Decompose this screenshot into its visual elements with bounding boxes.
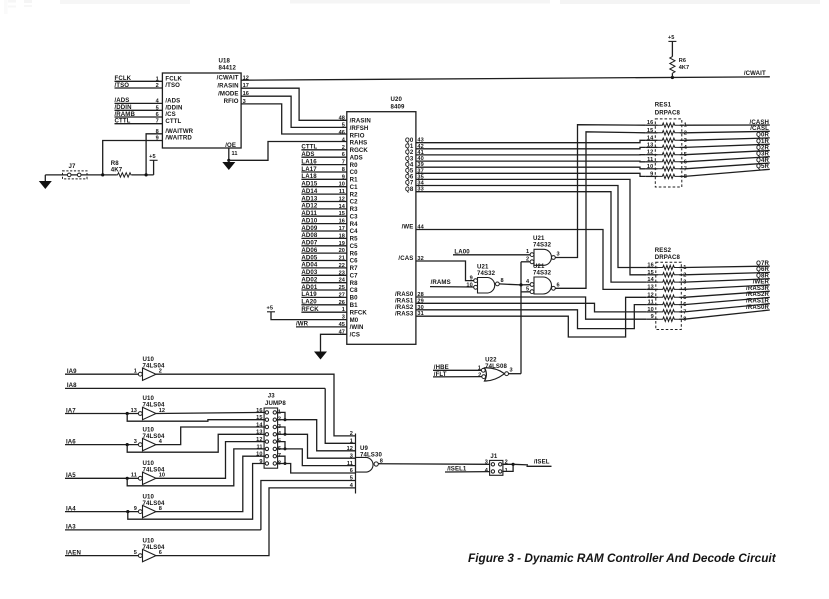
wire U21 vertical (pin2/pin4/pin5/U22) [521, 262, 530, 374]
svg-text:C8: C8 [350, 287, 359, 294]
wire net IA5 to U10 input [65, 472, 138, 479]
wire net Q3R [685, 151, 770, 162]
svg-text:J1: J1 [490, 453, 497, 460]
svg-text:LA20: LA20 [301, 299, 317, 306]
wire net AD02 to U20 [301, 277, 346, 284]
wire net AD10 to U20 [301, 217, 346, 224]
wire Q8 to RES2 pin14 [416, 192, 646, 282]
junction dot /OE node [227, 159, 230, 162]
IC U18 84412 wait-state controller [156, 57, 249, 157]
wire Q4 to RES1 [416, 167, 646, 169]
wire net LA17 to U20 [301, 166, 346, 173]
svg-text:RFIO: RFIO [224, 98, 239, 105]
junction dot at pin8 drop [145, 173, 148, 176]
svg-text:CTTL: CTTL [115, 118, 131, 125]
svg-text:13: 13 [647, 284, 653, 290]
scan streaks (decorative) [4, 0, 820, 14]
wire /IA6 to J3 pin14 [156, 427, 265, 445]
svg-text:/TSO: /TSO [115, 82, 130, 89]
connector J7 [63, 163, 88, 179]
resistor pack RES2 DRPAC8 [646, 247, 687, 329]
wire net /WER [684, 279, 770, 290]
wire net AD03 to U20 [301, 269, 346, 276]
svg-text:/RAS3: /RAS3 [395, 310, 414, 317]
svg-text:B0: B0 [350, 295, 359, 302]
svg-text:11: 11 [347, 461, 353, 467]
svg-text:15: 15 [647, 128, 653, 134]
svg-text:AD07: AD07 [301, 240, 317, 247]
wire Q5 to RES1 [416, 173, 646, 176]
wire net RFCK to U20 [301, 306, 346, 313]
wire /CAS to U21b pin9 [416, 261, 474, 281]
svg-text:5: 5 [342, 123, 345, 129]
svg-text:RFIO: RFIO [350, 132, 365, 139]
svg-text:C4: C4 [350, 228, 359, 235]
wire net Q7R [684, 260, 770, 268]
or-gate U21 74S32 (a) [526, 235, 560, 265]
svg-text:LA00: LA00 [454, 248, 470, 255]
IC U20 8409 DRAM controller [339, 96, 425, 344]
ground (U18 /OE) [222, 160, 235, 170]
svg-text:ADS: ADS [350, 154, 363, 161]
wire net /ISEL1 to J1 pin4 [445, 466, 490, 473]
wire net /FLT to U22 pin2 [433, 371, 482, 378]
svg-text:R6: R6 [350, 250, 359, 257]
svg-text:RFCK: RFCK [301, 306, 319, 313]
svg-text:LA17: LA17 [301, 166, 317, 173]
wire /RAS3 to RES2 pin12 [416, 297, 646, 337]
svg-text:U18: U18 [219, 57, 231, 64]
svg-text:C0: C0 [350, 169, 359, 176]
svg-text:AD03: AD03 [301, 269, 317, 276]
or-gate U21 74S32 (c) [526, 263, 560, 294]
wire RFIO U18 to U20 [241, 104, 347, 134]
svg-text:IA7: IA7 [66, 407, 76, 414]
wire net LA18 to U20 [301, 173, 346, 180]
svg-text:14: 14 [647, 277, 654, 283]
svg-text:14: 14 [647, 135, 654, 141]
svg-text:R0: R0 [350, 162, 359, 169]
wire net Q8R [684, 273, 770, 283]
svg-text:9: 9 [651, 314, 654, 320]
wire net /CASL [685, 125, 770, 133]
svg-text:J7: J7 [69, 163, 76, 170]
connector J1 [485, 453, 508, 475]
wire /RASIN U18 to U20 [241, 88, 347, 120]
wire J3 pair 3/4 to U9 [277, 427, 356, 458]
wire net AD09 to U20 [301, 225, 346, 232]
wire net AD15 to U20 [301, 181, 346, 188]
wire net /RAMS to U21b pin10 [430, 279, 474, 287]
wire /MODE U18 to U20 /RFSH [241, 96, 347, 127]
svg-text:IA8: IA8 [67, 382, 77, 389]
junction dot at pin9 drop [101, 173, 104, 176]
wire net CTTL to U18 [115, 118, 163, 125]
svg-text:6: 6 [557, 282, 560, 288]
wire /IA4 to J3 pin10 [156, 456, 265, 511]
wire /CASL U21c out to RES1 pin15 [555, 132, 646, 288]
svg-text:ADS: ADS [301, 151, 314, 158]
svg-text:IA5: IA5 [66, 472, 76, 479]
wire net AD07 to U20 [301, 240, 346, 247]
wire net ADS to U20 [301, 151, 346, 158]
wire net /HBE to U22 pin1 [433, 364, 481, 371]
svg-text:12: 12 [647, 292, 653, 298]
resistor pack RES1 DRPAC8 [646, 101, 688, 187]
svg-text:11: 11 [648, 300, 654, 306]
svg-text:74S32: 74S32 [533, 242, 552, 249]
svg-text:AD01: AD01 [301, 284, 317, 291]
wire /IA5 to J3 pin12 [156, 442, 265, 479]
svg-text:3: 3 [350, 453, 353, 459]
wire U18 /OE pin 11 [228, 148, 230, 160]
svg-text:RGCK: RGCK [350, 147, 369, 154]
svg-text:R2: R2 [350, 191, 359, 198]
wire net IA9 to U10 input [65, 368, 138, 375]
wire net CTTL to U20 [301, 144, 346, 151]
svg-text:2: 2 [478, 372, 481, 378]
svg-text:LA18: LA18 [301, 173, 317, 180]
wire IA6 to J3 pin13 [127, 434, 265, 452]
power +5 (U20 M0) [267, 306, 347, 320]
svg-text:Figure 3 - Dynamic RAM Control: Figure 3 - Dynamic RAM Controller And De… [468, 551, 777, 565]
wire net /TSO to U18 [115, 82, 163, 89]
wire J3 pair 7/8 to U9 [277, 456, 356, 473]
svg-text:74S32: 74S32 [477, 270, 496, 277]
wire Q2 to RES1 [416, 154, 646, 156]
wire /WE to RES2 pin13 [416, 230, 646, 290]
wire /OE to U20 RAHS pin 4 [229, 142, 347, 161]
svg-text:AD02: AD02 [301, 277, 317, 284]
inverter U10 74LS04 (IA6) [134, 426, 165, 451]
power +5 (R6 pullup) [668, 35, 677, 56]
wire net IAEN to U10 input [65, 549, 138, 556]
svg-text:/OE: /OE [225, 142, 236, 149]
wire net AD11 to U20 [301, 210, 346, 217]
junction dot J1 out [511, 463, 514, 466]
svg-text:/FLT: /FLT [434, 371, 447, 378]
svg-text:+5: +5 [149, 154, 156, 160]
wire net LA20 to U20 [301, 299, 346, 306]
svg-text:/CAS: /CAS [398, 255, 413, 262]
wire net AD08 to U20 [301, 232, 346, 239]
svg-text:CTTL: CTTL [301, 144, 317, 151]
svg-text:R1: R1 [350, 177, 359, 184]
svg-text:IA6: IA6 [66, 438, 76, 445]
svg-text:IAEN: IAEN [66, 549, 81, 556]
svg-text:46: 46 [339, 130, 345, 136]
svg-text:R4: R4 [350, 221, 359, 228]
svg-text:/RFSH: /RFSH [350, 125, 369, 132]
svg-text:9: 9 [650, 171, 653, 177]
svg-text:4K7: 4K7 [111, 166, 123, 173]
svg-text:/RAMS: /RAMS [431, 279, 451, 286]
svg-text:AD04: AD04 [301, 262, 317, 269]
svg-text:+5: +5 [267, 306, 274, 312]
wire net AD04 to U20 [301, 262, 346, 269]
wire U20 /CS to ground [321, 334, 347, 351]
wire /RAS2 to RES2 pin11 [416, 305, 646, 329]
svg-text:/WE: /WE [402, 224, 414, 231]
wire net /RAMB to U18 [115, 111, 163, 118]
wire net AD12 to U20 [301, 203, 346, 210]
wire net FCLK to U18 [115, 75, 163, 82]
wire net /RAS1R [684, 298, 770, 312]
wire net LA00 to U21a pin1 [453, 248, 530, 255]
svg-text:3: 3 [510, 368, 513, 374]
wire /IA9 to U9 pin2 [156, 374, 356, 436]
svg-text:C5: C5 [350, 243, 359, 250]
wire /CWAIT net [241, 70, 770, 80]
svg-text:/ISEL: /ISEL [534, 459, 550, 466]
svg-text:RAHS: RAHS [350, 140, 368, 147]
ground (left of J7) [39, 175, 52, 189]
svg-text:R8: R8 [350, 280, 359, 287]
svg-text:R7: R7 [350, 265, 359, 272]
svg-text:U20: U20 [391, 96, 403, 103]
svg-text:13: 13 [647, 142, 653, 148]
wire net LA19 to U20 [301, 291, 346, 298]
svg-text:B1: B1 [350, 302, 359, 309]
inverter U10 74LS04 (IA4) [134, 493, 165, 518]
svg-text:AD13: AD13 [301, 195, 317, 202]
svg-text:3: 3 [557, 252, 560, 258]
wire U18 pin9 /WAITRD [103, 141, 163, 175]
svg-text:/WR: /WR [296, 321, 309, 328]
svg-text:M0: M0 [350, 317, 359, 324]
wire net /WR to U20 [296, 321, 347, 328]
ground (U20 /CS) [314, 352, 327, 360]
svg-text:R5: R5 [350, 236, 359, 243]
wire node WAIT joint [45, 174, 153, 176]
wire net Q1R [685, 138, 770, 147]
inverter U10 74LS04 (IAEN) [134, 537, 165, 562]
nand-gate U9 74LS30 [347, 431, 383, 493]
svg-text:IA9: IA9 [67, 368, 77, 375]
svg-text:RES1: RES1 [655, 101, 672, 108]
svg-text:11: 11 [232, 151, 238, 157]
svg-text:12: 12 [647, 150, 653, 156]
wire net Q6R [684, 266, 770, 275]
svg-text:8: 8 [501, 278, 504, 284]
svg-text:/RASIN: /RASIN [350, 118, 371, 125]
power +5 (near R8) [149, 154, 158, 175]
wire Q0 to RES1 [416, 140, 646, 142]
connector J3 JUMP8 [256, 393, 286, 469]
svg-text:R3: R3 [350, 206, 359, 213]
resistor R8 4K7 [111, 160, 132, 177]
wire net IA3 to U9 pin5 [65, 481, 356, 531]
inverter U10 74LS04 (IA9) [134, 356, 165, 381]
svg-text:AD06: AD06 [301, 247, 317, 254]
wire Q7 to RES2 pin16 [416, 186, 646, 268]
figure caption [468, 551, 777, 565]
svg-text:15: 15 [647, 270, 653, 276]
wire IA7 to J3 pin15 [127, 414, 265, 422]
svg-text:AD11: AD11 [301, 210, 317, 217]
svg-text:Q5R: Q5R [756, 163, 769, 170]
svg-text:10: 10 [647, 307, 653, 313]
wire /IA7 to J3 pin16 [156, 412, 265, 413]
wire net IA8 to U9 pin1 [65, 382, 356, 443]
svg-text:LA16: LA16 [301, 158, 317, 165]
wire net Q0R [685, 132, 770, 141]
svg-text:/RAS0R: /RAS0R [746, 304, 769, 311]
junction dot IA6 branch [126, 443, 129, 446]
wire net Q2R [685, 144, 770, 154]
wire net LA16 to U20 [301, 158, 346, 165]
svg-text:/ISEL1: /ISEL1 [447, 466, 467, 473]
wire Q3 to RES1 [416, 160, 646, 163]
svg-text:12: 12 [347, 446, 353, 452]
wire net /DDIN to U18 [115, 104, 163, 111]
junction dot IA4 branch [126, 510, 129, 513]
wire /RAS0 to RES2 pin9 [416, 297, 646, 319]
or-gate U21 74S32 (b) [466, 263, 503, 293]
wire net /ADS to U18 [115, 97, 163, 104]
inverter U10 74LS04 (IA5) [131, 460, 165, 485]
wire net Q5R [685, 163, 770, 176]
wire net IA7 to U10 input [65, 407, 138, 414]
wire net AD05 to U20 [301, 254, 346, 261]
wire net AD14 to U20 [301, 188, 346, 195]
wire IA4 to J3 pin9 [128, 464, 265, 520]
svg-text:DRPAC8: DRPAC8 [655, 254, 681, 261]
wire net /RAS3R [684, 285, 770, 297]
svg-text:C7: C7 [350, 273, 359, 280]
wire U18 pin8 /WAITWR [146, 134, 162, 175]
wire net /ISEL from J1 [513, 459, 551, 467]
svg-text:J3: J3 [268, 393, 275, 400]
resistor R6 4K7 [670, 57, 689, 78]
wire J3 pair 1/2 to U9 [277, 412, 356, 450]
svg-text:48: 48 [339, 115, 345, 121]
and-gate U22 74LS08 [478, 356, 513, 381]
wire net IA4 to U10 input [65, 505, 138, 512]
wire /RAS1 to RES2 pin10 [416, 303, 646, 312]
svg-text:/TSO: /TSO [165, 82, 180, 89]
junction dot IA5 branch [126, 477, 129, 480]
junction dot R6//CWAIT [671, 76, 674, 79]
wire net /RAS2R [684, 291, 770, 304]
svg-text:IA4: IA4 [66, 505, 76, 512]
svg-text:16: 16 [647, 263, 653, 269]
svg-text:DRPAC8: DRPAC8 [655, 110, 681, 117]
svg-text:LA19: LA19 [301, 291, 317, 298]
svg-text:R6: R6 [679, 58, 686, 64]
svg-text:8409: 8409 [391, 103, 405, 110]
wire net AD13 to U20 [301, 195, 346, 202]
svg-text:10: 10 [647, 164, 653, 170]
svg-text:AD05: AD05 [301, 254, 317, 261]
svg-text:/CS: /CS [350, 332, 360, 339]
svg-text:C1: C1 [350, 184, 359, 191]
svg-text:11: 11 [647, 157, 653, 163]
wire /CASH U21a out to RES1 pin16 [555, 125, 646, 258]
svg-text:AD15: AD15 [301, 181, 317, 188]
junction dot IA7 branch [126, 412, 129, 415]
wire J3 pair 5/6 to U9 [277, 442, 356, 466]
svg-text:/RASIN: /RASIN [217, 82, 238, 89]
svg-text:/CWAIT: /CWAIT [217, 75, 239, 82]
wire net AD01 to U20 [301, 284, 346, 291]
svg-text:Q8: Q8 [405, 186, 414, 193]
svg-text:RFCK: RFCK [350, 309, 368, 316]
svg-text:+5: +5 [668, 35, 675, 41]
wire U9 out to J1 pin3 [378, 463, 489, 466]
svg-text:4K7: 4K7 [679, 65, 690, 71]
svg-text:AD12: AD12 [301, 203, 317, 210]
inverter U10 74LS04 (IA7) [131, 395, 166, 420]
svg-text:IA3: IA3 [66, 524, 76, 531]
svg-text:84412: 84412 [219, 65, 237, 72]
wire net AD06 to U20 [301, 247, 346, 254]
wire Q6 to RES2 pin15 [416, 179, 646, 274]
wire U21b out to U21 junction [499, 284, 521, 285]
wire Q1 to RES1 [416, 147, 646, 148]
svg-text:16: 16 [647, 120, 653, 126]
svg-text:AD10: AD10 [301, 217, 317, 224]
svg-text:/MODE: /MODE [218, 90, 238, 97]
svg-text:1: 1 [526, 249, 529, 255]
wire net /RAS0R [684, 304, 770, 319]
svg-text:C2: C2 [350, 199, 359, 206]
svg-text:C6: C6 [350, 258, 359, 265]
svg-text:6: 6 [350, 468, 353, 474]
svg-text:JUMP8: JUMP8 [265, 400, 286, 407]
svg-text:AD14: AD14 [301, 188, 317, 195]
svg-text:/WAITRD: /WAITRD [165, 135, 192, 142]
svg-text:C3: C3 [350, 213, 359, 220]
junction dot U21 net [519, 283, 522, 286]
svg-text:/WIN: /WIN [350, 324, 364, 331]
svg-text:10: 10 [466, 283, 472, 289]
wire net IA6 to U10 input [65, 438, 138, 445]
svg-text:/CWAIT: /CWAIT [744, 70, 766, 77]
svg-text:AD08: AD08 [301, 232, 317, 239]
svg-text:74S32: 74S32 [533, 270, 552, 277]
svg-text:AD09: AD09 [301, 225, 317, 232]
wire J1 pin2 loop to pin1 [503, 464, 513, 471]
wire /IAEN to U9 pin4 [156, 488, 356, 556]
wire net /CASH [685, 119, 770, 126]
wire U22 out up to U21c pin5 [509, 373, 522, 375]
wire IA5 to J3 pin11 [127, 449, 265, 486]
svg-text:CTTL: CTTL [165, 118, 181, 125]
wire net Q4R [685, 157, 770, 169]
